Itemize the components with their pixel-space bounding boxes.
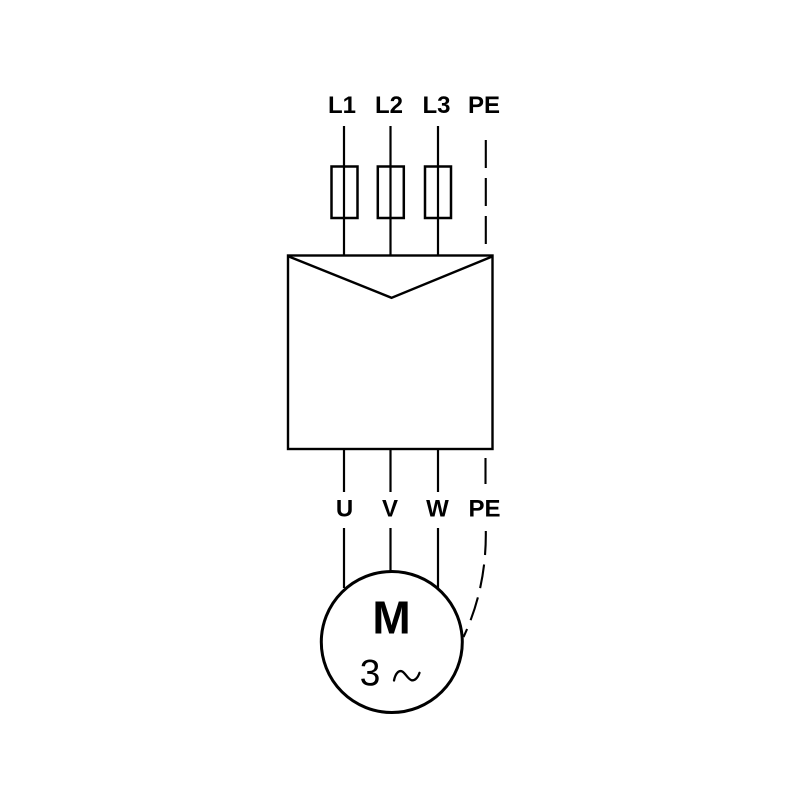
node PE (motor): [468, 496, 500, 523]
motor M1: [321, 572, 462, 713]
wire PE dashed from supply to box: [485, 140, 487, 246]
svg-text:W: W: [426, 496, 449, 523]
node L1: [328, 92, 356, 119]
node U: [336, 496, 353, 523]
wire V to motor: [389, 528, 391, 573]
wire PE dashed to motor frame: [464, 531, 486, 637]
svg-text:L2: L2: [375, 92, 403, 119]
node L2: [375, 92, 403, 119]
svg-text:L1: L1: [328, 92, 356, 119]
node PE (supply): [468, 92, 500, 119]
fuse F2: [378, 167, 404, 219]
fuse F1: [332, 167, 358, 219]
fuse F3: [425, 167, 451, 219]
wire box to node U: [343, 449, 345, 492]
svg-text:3: 3: [360, 653, 381, 694]
svg-text:L3: L3: [422, 92, 450, 119]
wire L3 to box (through fuse F3): [437, 126, 439, 256]
node V: [382, 496, 398, 523]
svg-text:PE: PE: [468, 92, 500, 119]
node L3: [422, 92, 450, 119]
wire U to motor: [343, 528, 345, 588]
svg-text:U: U: [336, 496, 353, 523]
svg-text:M: M: [372, 592, 410, 644]
starter box K1: [288, 256, 493, 450]
wire PE dashed from box to node PE: [484, 458, 486, 484]
svg-text:PE: PE: [468, 496, 500, 523]
wire W to motor: [437, 528, 439, 589]
wire L2 to box (through fuse F2): [389, 126, 391, 256]
wire box to node V: [389, 449, 391, 492]
wire box to node W: [437, 449, 439, 492]
node W: [426, 496, 449, 523]
wire L1 to box (through fuse F1): [343, 126, 345, 256]
svg-text:V: V: [382, 496, 398, 523]
